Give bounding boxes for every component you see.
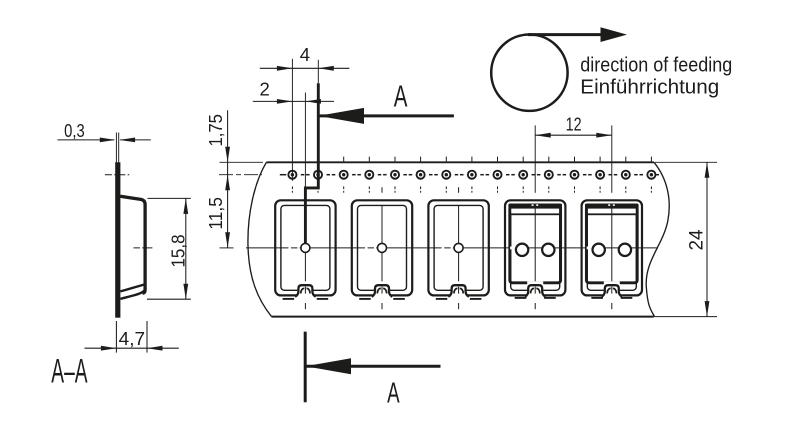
pocket 4 inner outline — [511, 205, 560, 290]
dimension 11,5 bottom arrow — [225, 232, 230, 248]
sprocket hole 14 centerline marks below — [625, 186, 627, 189]
svg-text:11,5: 11,5 — [205, 197, 226, 230]
tape bottom edge extension right (for 24) — [655, 316, 718, 318]
sprocket hole 12 centerline marks below — [574, 186, 576, 189]
svg-text:A: A — [394, 78, 408, 113]
dimension 12 line — [535, 134, 612, 136]
feed direction circle — [491, 34, 567, 110]
dimension 15,8 extension lines — [148, 197, 191, 199]
pocket 3 outer outline — [428, 200, 488, 295]
tape top edge — [266, 161, 654, 163]
pocket notch outer profile at x=612 — [602, 285, 623, 297]
sprocket hole 3 — [340, 171, 348, 179]
sprocket hole 1 — [288, 171, 296, 179]
pocket 1 centerline gaps on row centerline — [288, 247, 291, 250]
pocket 4 vertical centerline — [534, 206, 536, 293]
feed direction arrow shaft — [528, 33, 602, 36]
dimension 2 line — [253, 100, 334, 102]
sprocket hole 12 centerline tick above tape edge — [574, 157, 576, 162]
sprocket hole 7 — [442, 171, 450, 179]
sprocket hole 15 centerline marks below — [650, 186, 652, 189]
sprocket hole 14 centerline tick above tape edge — [625, 157, 627, 162]
sprocket hole 9 centerline tick above tape edge — [497, 157, 499, 162]
sprocket hole 10 centerline tick above tape edge — [522, 157, 524, 162]
pocket 1 hidden bottom dashes — [283, 298, 295, 300]
pocket 3 centerline dash above — [458, 187, 460, 193]
sprocket hole 8 centerline tick above tape edge — [471, 157, 473, 162]
pocket notch inner dome at x=459 — [454, 288, 458, 293]
dimension 0,3 left line and arrow — [58, 139, 115, 141]
sprocket hole 8 — [468, 171, 476, 179]
sprocket hole 15 centerline tick above tape edge — [650, 157, 652, 162]
sprocket hole 11 centerline marks below — [548, 186, 550, 189]
pocket 1 centerline dash above — [304, 187, 306, 193]
dimension 4,7 line with outside arrows — [85, 347, 179, 349]
pocket 2 centerline gaps on row centerline — [365, 247, 368, 250]
section A-A tape wall extension lines (0,3) — [115, 133, 117, 164]
pocket 5 centerline gap on row centerline — [587, 247, 593, 250]
sprocket hole 2 — [314, 171, 322, 179]
sprocket hole 15 — [647, 171, 655, 179]
pocket 5 component body outline — [586, 206, 637, 283]
pocket notch at x=612 whiteout — [604, 281, 620, 296]
pocket 1 inner outline — [281, 205, 330, 290]
pocket 5 component top slot — [588, 209, 636, 214]
dimension 15,8 line with arrows — [185, 198, 187, 299]
pocket 1 outer outline — [275, 200, 335, 295]
svg-text:Einführrichtung: Einführrichtung — [580, 77, 719, 99]
pocket notch at x=535 whiteout — [527, 281, 543, 296]
pocket notch inner dome at x=382 — [377, 288, 381, 293]
sprocket hole 12 — [570, 171, 578, 179]
sprocket hole 5 centerline marks below — [394, 186, 396, 189]
pocket 5 centerline dash below — [611, 303, 613, 309]
pocket notch at x=382 whiteout — [374, 281, 390, 296]
section cut line upper thick segment with jog — [305, 83, 318, 243]
sprocket centerline extension left — [219, 174, 262, 176]
sprocket hole 5 — [391, 171, 399, 179]
pocket notch centerline pass-through at x=305 — [304, 287, 306, 294]
pocket notch at x=459 whiteout — [451, 281, 467, 296]
pocket 5 inner outline — [587, 205, 636, 290]
dimension 4 line — [260, 67, 350, 69]
sprocket hole 6 — [417, 171, 425, 179]
pocket notch outer profile at x=535 — [525, 285, 546, 297]
sprocket hole 6 centerline tick above tape edge — [420, 157, 422, 162]
sprocket hole 14 — [622, 171, 630, 179]
svg-text:0,3: 0,3 — [64, 120, 85, 141]
sprocket hole 8 centerline marks below — [471, 186, 473, 189]
svg-text:A: A — [387, 377, 400, 409]
pocket 1 centerline extension (dimension 2) — [304, 93, 306, 188]
pocket 1 vertical centerline — [304, 252, 306, 293]
pocket row centerline — [246, 247, 658, 249]
pocket 2 inner outline — [358, 205, 407, 290]
svg-text:A–A: A–A — [51, 353, 87, 391]
svg-text:1,75: 1,75 — [205, 114, 226, 147]
sprocket hole 1 centerline marks below — [291, 186, 293, 189]
section A-A pocket bottom lower line with corner curl — [120, 290, 144, 299]
pocket 3 centerline gaps on row centerline — [442, 247, 445, 250]
svg-text:12: 12 — [566, 113, 582, 134]
pocket notch centerline pass-through at x=382 — [381, 287, 383, 294]
pocket 1 center hole — [301, 243, 310, 252]
pocket 1 centerline dash below — [304, 303, 306, 309]
hole 1 centerline extension (dimension 4/2) — [291, 59, 293, 181]
sprocket hole 10 centerline marks below — [522, 186, 524, 189]
pocket 2 centerline dash above — [381, 187, 383, 193]
svg-text:24: 24 — [686, 229, 707, 250]
pocket centerline extension left (for 11,5) — [220, 247, 234, 249]
dimension 24 arrows — [705, 162, 710, 178]
tape top edge extension left — [220, 161, 264, 163]
dimension 1,75 / 11,5 shared line — [227, 110, 229, 248]
section arrow A lower shaft — [306, 365, 441, 368]
pocket 4 component contact holes — [516, 244, 528, 256]
pocket notch outer profile at x=305 — [295, 285, 316, 297]
pocket notch inner dome at x=612 — [607, 288, 611, 293]
dimension 1,75 arrow (down to tape edge) — [225, 147, 230, 163]
pocket 4 centerline gap on row centerline — [510, 247, 516, 250]
section arrow A upper shaft — [319, 114, 454, 117]
sprocket hole 3 centerline tick above tape edge — [343, 157, 345, 162]
section A-A pocket bottom upper line — [120, 285, 143, 292]
tape top edge extension right (for 24) — [655, 161, 717, 163]
pocket 5 outer outline — [582, 200, 642, 295]
pocket notch centerline pass-through at x=459 — [458, 287, 460, 294]
pocket 4 component top mark — [532, 204, 534, 206]
svg-text:direction of feeding: direction of feeding — [580, 54, 732, 76]
svg-text:4,7: 4,7 — [119, 328, 145, 349]
svg-text:4: 4 — [300, 44, 310, 65]
sprocket hole 11 — [545, 171, 553, 179]
sprocket hole 6 centerline marks below — [420, 186, 422, 189]
sprocket hole 13 centerline tick above tape edge — [599, 157, 601, 162]
section arrow A upper head — [318, 108, 364, 124]
sprocket hole 11 centerline tick above tape edge — [548, 157, 550, 162]
sprocket hole 9 centerline marks below — [497, 186, 499, 189]
pocket 3 centerline dash below — [458, 303, 460, 309]
dimension 24 line — [706, 162, 708, 316]
pocket 3 vertical centerline — [458, 206, 460, 243]
section cut line upper extension (hole 2 centerline) — [317, 60, 319, 83]
pocket 4 hidden bottom dashes — [515, 297, 527, 299]
section A-A pocket centerline tick — [134, 247, 153, 249]
tape bottom edge — [272, 316, 654, 318]
sprocket hole 4 centerline tick above tape edge — [368, 157, 370, 162]
sprocket hole 7 centerline tick above tape edge — [445, 157, 447, 162]
pocket 5 component contact holes — [593, 244, 605, 256]
pocket 3 inner outline — [434, 205, 483, 290]
pocket 4 component top band — [508, 204, 562, 209]
pocket 5 component top mark — [608, 204, 610, 206]
section cut line lower thick segment — [304, 332, 307, 403]
pocket notch outer profile at x=382 — [372, 285, 393, 297]
sprocket hole 7 centerline marks below — [445, 186, 447, 189]
sprocket hole 9 — [493, 171, 501, 179]
pocket notch inner dome at x=305 — [301, 288, 305, 293]
dimension 4,7 extension lines — [115, 321, 117, 353]
dimension 12 arrows — [535, 133, 551, 138]
pocket 4 outer outline — [505, 200, 565, 295]
sprocket hole 5 centerline tick above tape edge — [394, 157, 396, 162]
section A-A tape wall (cut material) — [115, 162, 120, 317]
dimension 4 arrows — [277, 66, 293, 71]
pocket 3 hidden bottom dashes — [436, 298, 448, 300]
sprocket hole 2 centerline marks below — [317, 186, 319, 189]
pocket 2 vertical centerline — [381, 206, 383, 243]
tape left break line — [248, 162, 272, 316]
feed direction arrow head — [601, 27, 628, 42]
sprocket hole 13 — [596, 171, 604, 179]
pocket 5 hidden bottom dashes — [591, 297, 603, 299]
sprocket hole 4 — [365, 171, 373, 179]
pocket 5 vertical centerline — [611, 206, 613, 293]
pocket 3 center hole — [454, 243, 463, 252]
section A-A sprocket centerline tick — [105, 174, 130, 176]
sprocket hole centerline dashes — [301, 174, 305, 176]
pocket notch inner dome at x=535 — [531, 288, 535, 293]
pocket 5 component top band — [585, 204, 639, 209]
dimension 2 arrows — [277, 99, 293, 104]
pocket 2 center hole — [378, 243, 387, 252]
pocket notch centerline pass-through at x=612 — [611, 287, 613, 294]
sprocket hole 13 centerline marks below — [599, 186, 601, 189]
pocket 4 component top slot — [511, 209, 559, 214]
pocket 4 centerline dash below — [534, 303, 536, 309]
sprocket hole 10 — [519, 171, 527, 179]
pocket 4 component body outline — [510, 206, 561, 283]
pocket notch centerline pass-through at x=535 — [534, 287, 536, 294]
sprocket hole 4 centerline marks below — [368, 186, 370, 189]
pocket 2 centerline dash below — [381, 303, 383, 309]
tape right break line — [646, 162, 669, 316]
dimension 12 extension lines (pockets 4 and 5 centerlines) — [534, 125, 536, 192]
dimension 0,3 right line and arrow — [120, 139, 151, 141]
sprocket hole 3 centerline marks below — [343, 186, 345, 189]
pocket notch outer profile at x=459 — [448, 285, 469, 297]
svg-text:2: 2 — [260, 79, 270, 100]
svg-text:15,8: 15,8 — [167, 235, 188, 268]
pocket notch at x=305 whiteout — [297, 281, 313, 296]
dimension 11,5 top arrow — [225, 175, 230, 191]
section arrow A lower head — [305, 358, 351, 374]
pocket 2 outer outline — [352, 200, 412, 295]
section A-A pocket top flange — [120, 196, 145, 293]
pocket 2 hidden bottom dashes — [359, 298, 371, 300]
